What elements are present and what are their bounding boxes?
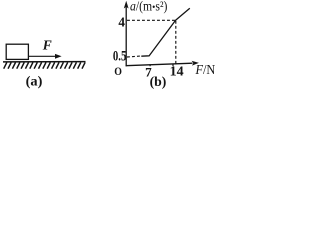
tick F=14: [172, 64, 174, 66]
ground hatching: [4, 62, 85, 68]
a-F line: [141, 8, 190, 56]
y-axis arrowhead: [124, 1, 129, 9]
svg-text:14: 14: [170, 65, 184, 80]
svg-text:O: O: [114, 64, 122, 78]
svg-text:F: F: [42, 37, 52, 52]
dashed level a=0.5: [127, 56, 142, 57]
tick F=7: [149, 64, 151, 66]
block: [6, 44, 28, 59]
force arrow F head: [55, 54, 62, 59]
svg-text:(b): (b): [150, 75, 167, 89]
ground line: [3, 61, 86, 63]
y-axis: [125, 7, 127, 67]
x-axis: [126, 63, 193, 65]
x-axis arrowhead: [192, 61, 199, 66]
svg-text:4: 4: [118, 16, 125, 31]
dashed level a=4: [127, 19, 176, 21]
svg-text:(a): (a): [26, 74, 43, 89]
svg-text:F/N: F/N: [195, 62, 216, 77]
svg-text:0.5: 0.5: [113, 48, 127, 64]
dashed vertical F=14: [175, 21, 177, 64]
svg-text:a/(m•s²): a/(m•s²): [130, 0, 167, 14]
force arrow F shaft: [29, 55, 57, 57]
